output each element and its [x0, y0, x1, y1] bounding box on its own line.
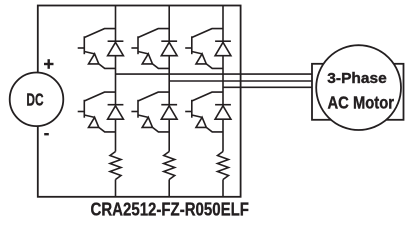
diode D6 (freewheeling, lower leg 3): [215, 105, 231, 120]
wire: phase V output from leg 2 to motor: [169, 80, 312, 82]
plus polarity mark: [44, 59, 54, 69]
wire: leg 1 vertical from top rail to upper diode D1: [115, 6, 117, 42]
wire: leg 3 vertical from lower diode to resistor R3: [222, 119, 224, 151]
wire: leg 2 vertical from upper diode to lower diode (through phase node): [168, 56, 170, 105]
diode D4 (freewheeling, lower leg 1): [108, 105, 124, 120]
svg-text:CRA2512-FZ-R050ELF: CRA2512-FZ-R050ELF: [91, 199, 249, 220]
resistor R2 (shunt): [164, 152, 175, 180]
inverter box outline: [38, 6, 241, 197]
transistor Q4 (IGBT, lower leg 1): [78, 92, 116, 132]
wire: leg 2 vertical from lower diode to resistor R2: [168, 119, 170, 151]
transistor Q3 (IGBT, upper leg 3): [185, 29, 223, 69]
wire: leg 3 vertical from upper diode to lower diode (through phase node): [222, 56, 224, 105]
diode D1 (freewheeling, upper leg 1): [108, 41, 124, 56]
diode D2 (freewheeling, upper leg 2): [161, 41, 177, 56]
motor housing rectangle: [312, 64, 404, 120]
transistor Q6 (IGBT, lower leg 3): [185, 92, 223, 132]
DC source V1 circle: [10, 73, 64, 127]
wire: leg 1 vertical from upper diode to lower diode (through phase node): [115, 56, 117, 105]
minus polarity mark: [44, 133, 49, 135]
wire: leg 3 vertical from resistor R3 to bottom rail: [222, 180, 224, 197]
wire: phase W output from leg 3 to motor: [223, 86, 312, 88]
wire: phase U output from leg 1 to motor: [116, 73, 313, 75]
motor M1 circle: [316, 45, 401, 130]
transistor Q2 (IGBT, upper leg 2): [131, 29, 169, 69]
wire: leg 2 vertical from resistor R2 to bottom rail: [168, 180, 170, 197]
transistor Q1 (IGBT, upper leg 1): [78, 29, 116, 69]
wire: leg 1 vertical from resistor R1 to bottom rail: [115, 180, 117, 197]
transistor Q5 (IGBT, lower leg 2): [131, 92, 169, 132]
wire: leg 2 vertical from top rail to upper diode D2: [168, 6, 170, 42]
svg-text:3-Phase: 3-Phase: [327, 70, 387, 87]
resistor R1 (shunt): [110, 152, 121, 180]
resistor R3 (shunt): [218, 152, 229, 180]
wire: leg 3 vertical from top rail to upper diode D3: [222, 6, 224, 42]
svg-text:AC Motor: AC Motor: [328, 92, 395, 112]
diode D3 (freewheeling, upper leg 3): [215, 41, 231, 56]
wire: leg 1 vertical from lower diode to resistor R1: [115, 119, 117, 151]
svg-text:DC: DC: [26, 90, 43, 110]
diode D5 (freewheeling, lower leg 2): [161, 105, 177, 120]
